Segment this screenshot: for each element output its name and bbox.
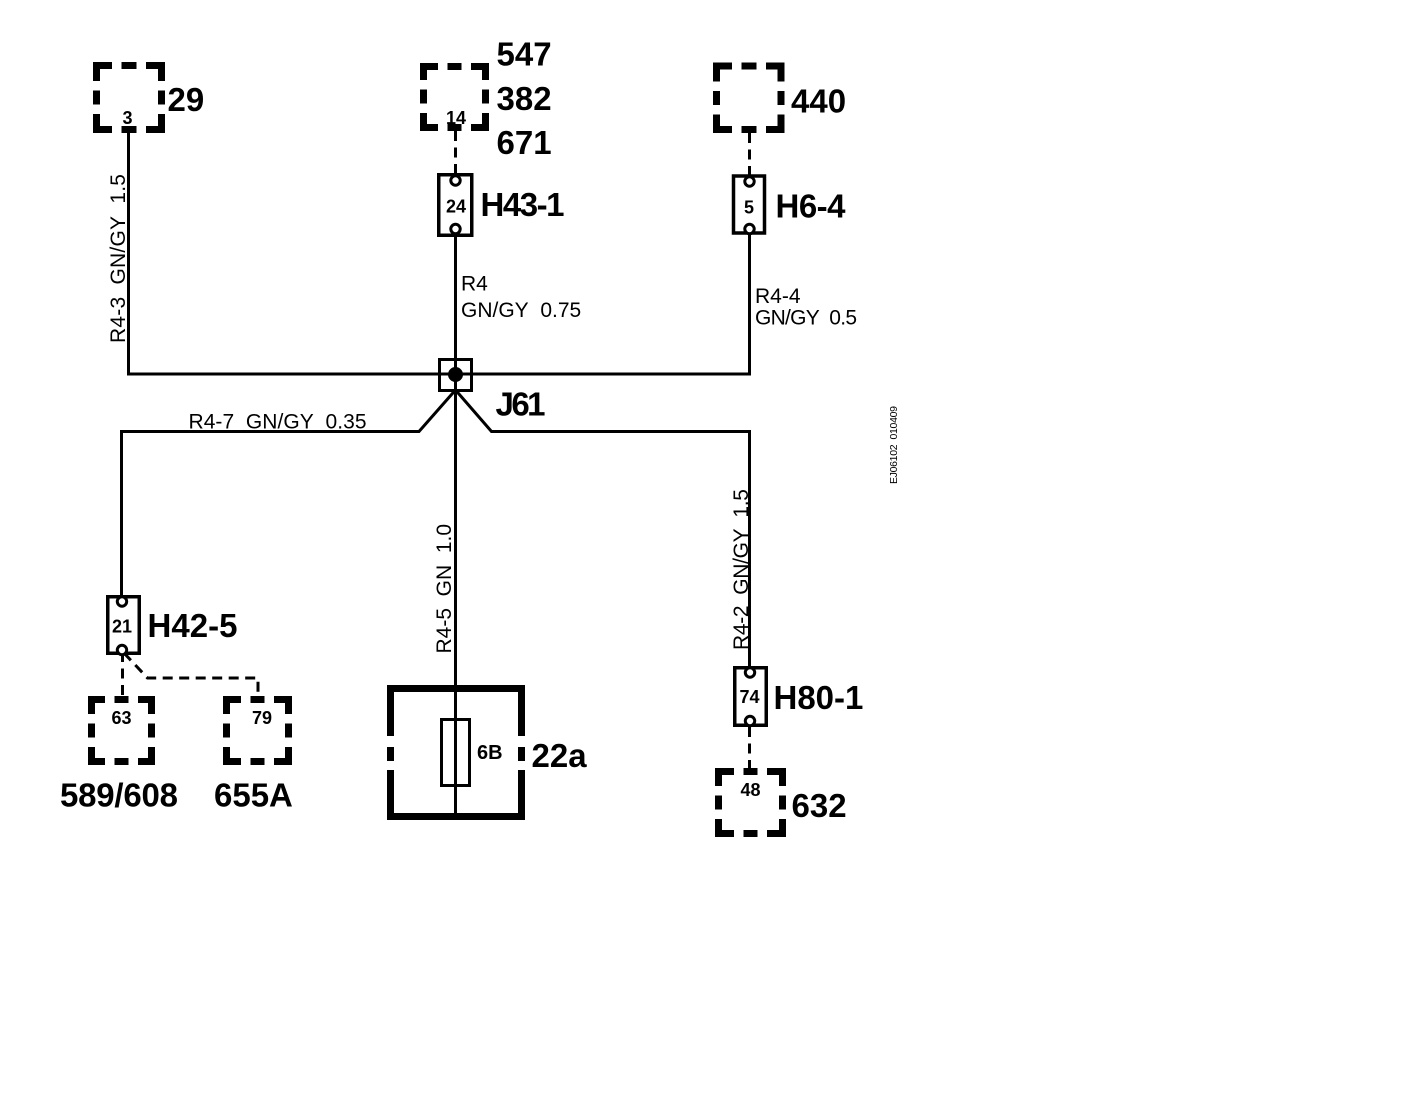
component box 79 (dashed square) bbox=[223, 696, 292, 765]
junction solder dot J61 bbox=[448, 367, 463, 382]
svg-text:R4: R4 bbox=[461, 273, 488, 296]
svg-text:440: 440 bbox=[791, 83, 846, 120]
svg-text:547: 547 bbox=[497, 36, 552, 73]
connector H6-4 pin 5 bbox=[734, 176, 765, 234]
svg-text:R4-2 GN/GY 1.5: R4-2 GN/GY 1.5 bbox=[730, 489, 753, 650]
svg-text:5: 5 bbox=[744, 198, 754, 218]
svg-text:655A: 655A bbox=[214, 777, 293, 814]
dashed wire H80-1 pin 74 to box 48 bbox=[748, 727, 751, 769]
component box 440 (dashed square) bbox=[713, 63, 785, 134]
svg-text:24: 24 bbox=[446, 197, 466, 217]
component box 29 (dashed square) bbox=[93, 62, 165, 133]
wire R4-3 from box 29 pin 3 down and along to junction J61 and up to H6-4 pin 5 bbox=[129, 133, 750, 374]
wire R4 vertical from H43-1 pin 24 through junction J61 down to 22a bbox=[454, 235, 457, 820]
svg-text:74: 74 bbox=[739, 687, 759, 707]
svg-text:29: 29 bbox=[168, 81, 205, 118]
svg-text:21: 21 bbox=[112, 617, 132, 637]
terminal circle top of H43-1 bbox=[451, 176, 460, 185]
component box 547/382/671 (dashed square) bbox=[420, 63, 489, 131]
dashed wire H42-5 pin 21 to box 63 bbox=[121, 652, 124, 698]
svg-text:GN/GY 0.75: GN/GY 0.75 bbox=[461, 299, 581, 322]
wire R4-2 from junction J61 diagonal right then to H80-1 pin 74 bbox=[456, 390, 750, 667]
connector H42-5 pin 21 bbox=[108, 597, 140, 655]
wire R4-7 from junction J61 diagonal left then to H42-5 pin 21 bbox=[122, 390, 456, 597]
svg-text:22a: 22a bbox=[532, 737, 588, 774]
svg-text:671: 671 bbox=[497, 124, 552, 161]
terminal circle top of H80-1 bbox=[745, 668, 754, 677]
junction J61 bbox=[440, 360, 472, 391]
terminal circle top of H6-4 bbox=[745, 177, 754, 186]
svg-text:48: 48 bbox=[740, 780, 760, 800]
connector H80-1 pin 74 bbox=[735, 668, 767, 726]
svg-text:6B: 6B bbox=[477, 742, 503, 764]
terminal circle bottom of H80-1 bbox=[745, 716, 754, 725]
svg-text:R4-7 GN/GY 0.35: R4-7 GN/GY 0.35 bbox=[189, 411, 367, 434]
terminal circle bottom of H43-1 bbox=[451, 224, 460, 233]
svg-text:H43-1: H43-1 bbox=[481, 186, 565, 223]
svg-text:R4-3 GN/GY 1.5: R4-3 GN/GY 1.5 bbox=[107, 174, 130, 343]
svg-text:632: 632 bbox=[792, 787, 847, 824]
svg-text:3: 3 bbox=[122, 108, 132, 128]
component box 63 (dashed square) bbox=[88, 696, 155, 765]
svg-text:14: 14 bbox=[446, 108, 466, 128]
svg-text:79: 79 bbox=[252, 708, 272, 728]
svg-text:H80-1: H80-1 bbox=[774, 679, 864, 716]
fuse element 6B inside 22a bbox=[442, 720, 470, 786]
junction box outline J61 bbox=[440, 360, 472, 391]
dashed wire box 547/382/671 pin 14 to connector H43-1 bbox=[454, 131, 457, 176]
dashed wire H42-5 pin 21 to box 79 bbox=[124, 653, 258, 698]
svg-text:J61: J61 bbox=[496, 386, 546, 423]
terminal circle bottom of H6-4 bbox=[745, 224, 754, 233]
svg-text:382: 382 bbox=[497, 80, 552, 117]
svg-text:63: 63 bbox=[111, 708, 131, 728]
svg-text:H42-5: H42-5 bbox=[148, 607, 238, 644]
terminal circle bottom of H42-5 bbox=[117, 645, 126, 654]
svg-text:589/608: 589/608 bbox=[60, 777, 178, 814]
svg-text:GN/GY 0.5: GN/GY 0.5 bbox=[755, 307, 857, 330]
component box 48 (dashed square) bbox=[715, 768, 786, 837]
svg-text:R4-5 GN 1.0: R4-5 GN 1.0 bbox=[433, 524, 456, 654]
dashed wire box 440 to connector H6-4 bbox=[748, 133, 751, 177]
terminal circle top of H42-5 bbox=[117, 597, 126, 606]
svg-text:EJ06102 010409: EJ06102 010409 bbox=[888, 406, 900, 484]
svg-text:H6-4: H6-4 bbox=[776, 188, 847, 225]
connector H43-1 pin 24 bbox=[439, 175, 472, 236]
svg-text:R4-4: R4-4 bbox=[755, 285, 801, 308]
component 22a box (thick dashed frame) bbox=[387, 685, 525, 820]
